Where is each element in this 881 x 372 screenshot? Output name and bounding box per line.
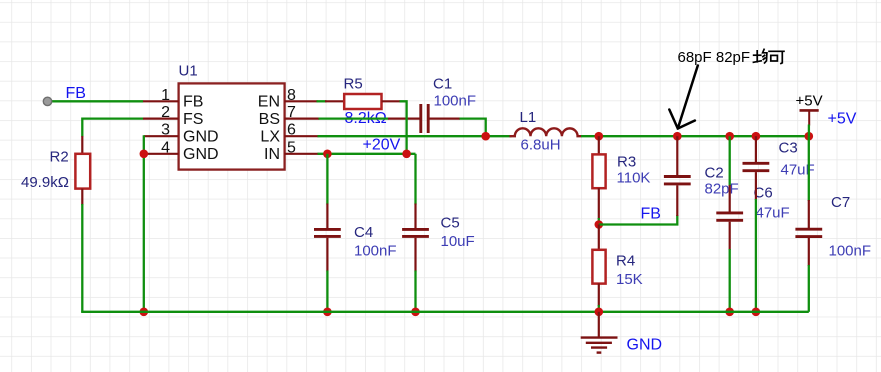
wire R3 bottom lead — [598, 188, 600, 219]
wire C7 to bottom rail corner — [808, 265, 810, 312]
wire C7 top lead — [808, 200, 810, 228]
annotation glyph 可 — [768, 51, 785, 64]
capacitor C4 — [314, 228, 341, 231]
node IN/R5 junction — [402, 150, 411, 159]
svg-text:+5V: +5V — [796, 93, 823, 110]
svg-text:C1: C1 — [433, 76, 452, 93]
pin 7 BS stub — [285, 117, 320, 119]
node C6 bottom rail — [725, 308, 734, 317]
node C6 junction — [725, 132, 734, 141]
wire C5 bottom lead — [414, 238, 416, 272]
svg-text:100nF: 100nF — [829, 243, 872, 260]
node C4 bottom rail — [323, 308, 332, 317]
resistor R5 — [344, 94, 381, 109]
wire BS net green — [319, 117, 389, 119]
resistor R4 — [592, 250, 605, 284]
wire R5 left lead — [325, 100, 344, 102]
capacitor C2 — [664, 175, 691, 178]
wire C1 left lead — [388, 117, 420, 119]
wire corner down to C5 — [414, 154, 416, 205]
wire R4 top lead — [598, 225, 600, 251]
svg-text:C7: C7 — [831, 194, 850, 211]
wire R5 to +20V corner — [400, 101, 407, 154]
svg-text:R2: R2 — [50, 149, 69, 166]
node C1/LX junction — [481, 132, 490, 141]
svg-text:R4: R4 — [616, 253, 635, 270]
wire C5 top lead — [414, 204, 416, 229]
svg-text:C5: C5 — [441, 215, 460, 232]
svg-text:EN: EN — [258, 94, 280, 111]
svg-text:15K: 15K — [616, 271, 643, 288]
wire C6 to bottom rail — [729, 249, 731, 312]
svg-text:FS: FS — [183, 111, 203, 128]
node GND column on bottom rail — [140, 308, 149, 317]
node C3 junction — [752, 132, 761, 141]
capacitor C3 — [743, 162, 770, 165]
svg-text:49.9kΩ: 49.9kΩ — [21, 174, 69, 191]
svg-text:4: 4 — [161, 139, 170, 156]
wire C3 to bottom rail — [755, 199, 757, 312]
capacitor C1 — [419, 104, 422, 133]
wire R4 to bottom rail — [598, 305, 600, 312]
svg-text:IN: IN — [264, 146, 280, 163]
svg-text:C2: C2 — [705, 165, 724, 182]
svg-text:68pF 82pF: 68pF 82pF — [678, 49, 751, 66]
wire R3 top lead — [598, 136, 600, 155]
annotation glyph 均 — [753, 49, 767, 64]
wire R5 right lead — [382, 100, 401, 102]
pin 8 EN stub — [285, 100, 318, 102]
svg-text:GND: GND — [183, 129, 219, 146]
ground symbol — [581, 338, 618, 353]
IC U1 body — [179, 83, 285, 169]
resistor R2 — [75, 154, 90, 189]
resistor R3 — [592, 154, 605, 188]
svg-text:C4: C4 — [354, 224, 373, 241]
svg-text:110K: 110K — [617, 170, 651, 187]
svg-text:R5: R5 — [344, 76, 363, 93]
wire C4 to bottom rail — [326, 271, 328, 312]
wire C7 column from +5V rail — [808, 136, 810, 201]
capacitor C6 — [716, 211, 743, 214]
svg-text:GND: GND — [627, 337, 663, 354]
svg-text:7: 7 — [287, 104, 296, 121]
port FB (gray dot) — [43, 97, 51, 105]
svg-text:U1: U1 — [179, 63, 198, 80]
pin 1 FB stub — [143, 100, 179, 102]
annotation arrow to C2 node — [669, 66, 698, 129]
node R4/GND junction — [595, 308, 604, 317]
svg-text:+20V: +20V — [363, 137, 401, 154]
wire R2 to bottom rail — [81, 204, 83, 312]
pin 6 LX stub — [285, 135, 319, 137]
wire FB net from port to pin 1 — [50, 100, 143, 102]
pin 5 IN stub — [285, 153, 319, 155]
power +5V symbol — [800, 109, 819, 112]
node IN/C4 junction — [323, 150, 332, 159]
wire L1 to output rail — [581, 135, 599, 137]
svg-text:6: 6 — [287, 122, 296, 139]
wire GND pins vertical to bottom rail — [143, 135, 145, 312]
pin 4 GND stub — [144, 153, 179, 155]
wire C6 bottom lead — [729, 222, 731, 250]
svg-text:C3: C3 — [779, 140, 798, 157]
wire +20V (IN) net — [318, 153, 416, 155]
wire C6 top lead — [729, 185, 731, 212]
wire C1 right lead — [430, 117, 461, 119]
svg-text:1: 1 — [161, 87, 170, 104]
wire FB net to C2 — [599, 215, 678, 225]
wire C2 top lead — [676, 136, 678, 176]
wire bottom GND rail — [82, 311, 809, 312]
node C5 bottom rail — [411, 308, 420, 317]
wire EN to R5 (green nub) — [317, 100, 327, 102]
svg-text:5: 5 — [287, 139, 296, 156]
wire C6 column — [729, 136, 731, 186]
wire C2 bottom lead — [676, 185, 678, 216]
svg-text:BS: BS — [259, 111, 280, 128]
svg-text:82pF: 82pF — [705, 181, 739, 198]
wire +5V output rail — [599, 135, 809, 137]
pin 2 FS stub — [143, 117, 179, 119]
wire C3 top lead — [755, 136, 757, 163]
capacitor C7 — [795, 228, 822, 231]
svg-text:R3: R3 — [617, 154, 636, 171]
svg-text:6.8uH: 6.8uH — [521, 137, 561, 154]
capacitor C5 — [402, 228, 429, 231]
node pin3/pin4 junction — [140, 150, 149, 159]
svg-text:FB: FB — [183, 94, 203, 111]
wire C4 bottom lead — [326, 238, 328, 272]
node L1/R3 junction — [595, 132, 604, 141]
svg-text:8: 8 — [287, 87, 296, 104]
svg-text:FB: FB — [66, 85, 86, 102]
svg-text:100nF: 100nF — [354, 243, 397, 260]
svg-text:LX: LX — [260, 129, 280, 146]
pin 3 GND stub — [144, 135, 179, 137]
wire C7 bottom lead — [808, 238, 810, 266]
svg-text:100nF: 100nF — [434, 93, 477, 110]
svg-text:+5V: +5V — [828, 111, 857, 128]
inductor L1 — [510, 128, 582, 136]
node C2 junction — [673, 132, 682, 141]
node C3 bottom rail — [752, 308, 761, 317]
wire C5 to bottom rail — [414, 271, 416, 312]
wire FS net horizontal — [82, 117, 143, 119]
node +5V/C7 junction — [805, 132, 814, 141]
wire LX net to L1 — [318, 135, 512, 137]
wire C1 to LX corner — [460, 119, 486, 137]
wire R4 bottom lead — [598, 283, 600, 306]
svg-text:GND: GND — [183, 146, 219, 163]
wire R3 to FB node — [598, 218, 600, 225]
svg-text:47uF: 47uF — [756, 205, 790, 222]
svg-text:10uF: 10uF — [441, 233, 475, 250]
wire GND stem — [598, 312, 600, 338]
wire C4 top — [326, 154, 328, 205]
svg-text:3: 3 — [161, 122, 170, 139]
wire C4 top lead — [326, 204, 328, 229]
svg-text:L1: L1 — [520, 109, 537, 126]
svg-text:FB: FB — [641, 206, 661, 223]
wire C3 bottom lead — [755, 172, 757, 200]
wire FS net vertical down to R2 — [81, 118, 83, 137]
node FB junction — [595, 220, 604, 229]
svg-text:2: 2 — [161, 104, 170, 121]
wire R2 top lead (dark red) — [81, 136, 83, 154]
wire R2 bottom lead (dark red) — [81, 189, 83, 205]
